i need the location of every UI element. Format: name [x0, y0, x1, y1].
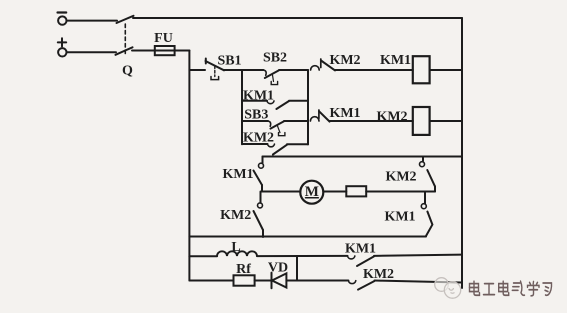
bridge middle rail — [262, 191, 300, 193]
wire SB2 to node B — [279, 69, 308, 71]
pushbutton SB2 — [242, 69, 264, 71]
svg-text:SB1: SB1 — [217, 54, 241, 69]
svg-text:Rf: Rf — [236, 262, 251, 277]
fuse FU — [155, 50, 175, 52]
wire KM2 to right bus (bottom) — [375, 281, 463, 283]
node B column — [307, 70, 309, 144]
wire minus to switch — [67, 20, 117, 22]
wire coil KM2 to right bus — [430, 120, 462, 122]
watermark logo circles — [435, 278, 461, 298]
svg-text:KM1: KM1 — [384, 209, 415, 224]
svg-text:KM2: KM2 — [376, 109, 407, 124]
wire rung1 start — [189, 69, 205, 71]
svg-text:SB2: SB2 — [263, 50, 287, 65]
bridge bottom rail — [189, 236, 426, 238]
inductor L — [189, 255, 217, 257]
电 — [470, 281, 480, 295]
svg-text:KM1: KM1 — [243, 89, 274, 104]
contact KM1 bridge top-left — [262, 157, 264, 164]
svg-text:KM1: KM1 — [380, 53, 411, 68]
coil KM2 — [413, 107, 430, 135]
resistor Rf — [234, 275, 255, 285]
svg-text:KM2: KM2 — [220, 208, 251, 223]
contact KM1 bridge bottom-right — [424, 192, 426, 204]
pushbutton SB1 — [205, 59, 207, 64]
coil KM1 — [413, 56, 430, 83]
node A column — [241, 70, 243, 144]
right bus — [461, 18, 463, 288]
contact KM1 NO (hold-in) — [242, 100, 267, 102]
pushbutton SB3 — [242, 120, 268, 122]
switch Q link (dashed) — [124, 24, 126, 55]
svg-text:KM2: KM2 — [363, 267, 394, 282]
习 — [543, 283, 552, 295]
wire coil KM1 to right bus — [430, 69, 462, 71]
svg-text:KM1: KM1 — [329, 106, 360, 121]
resistor (armature) — [346, 186, 366, 196]
svg-text:Q: Q — [122, 63, 133, 78]
工 — [484, 284, 495, 295]
switch Q pole 1 — [117, 16, 134, 23]
气 — [512, 281, 524, 295]
left bus — [188, 51, 190, 281]
svg-text:M: M — [305, 184, 319, 200]
diode VD — [271, 273, 273, 289]
svg-text:KM1: KM1 — [345, 241, 376, 256]
bridge top rail — [263, 156, 463, 158]
svg-text:KM2: KM2 — [385, 170, 416, 185]
motor M — [300, 181, 323, 204]
svg-text:FU: FU — [154, 31, 173, 46]
svg-text:KM2: KM2 — [329, 53, 360, 68]
wire Rf to VD — [255, 280, 272, 282]
contact KM2 bridge top-right — [422, 157, 424, 162]
watermark text 电工电气学习 (drawn strokes) — [470, 281, 552, 296]
wire Rf row left — [189, 280, 233, 282]
contact KM1 NC (rung2) — [310, 117, 319, 121]
svg-text:KM1: KM1 — [222, 167, 253, 182]
switch Q pole 2 — [116, 47, 133, 55]
svg-text:VD: VD — [268, 260, 288, 275]
wire SB1 to node A — [224, 69, 242, 71]
junction vertical L/Rf — [296, 256, 298, 280]
contact KM2 NO (hold-in rung2) — [242, 143, 268, 145]
terminal plus — [58, 48, 66, 56]
terminal minus — [58, 16, 66, 24]
wire fuse to left bus — [175, 50, 190, 52]
电 — [499, 281, 509, 295]
contact KM2 NC (rung1) — [311, 66, 320, 70]
contact KM2 (bottom row) — [348, 281, 355, 284]
wire VD to junction — [286, 280, 348, 282]
svg-text:L: L — [231, 240, 240, 255]
wire plus to switch — [67, 51, 116, 53]
contact KM1 (bottom row) — [348, 256, 355, 259]
top rail (minus bus) — [133, 17, 462, 19]
contact KM2 bridge bottom-left — [260, 192, 262, 203]
svg-text:KM2: KM2 — [243, 130, 274, 145]
学 — [528, 282, 540, 296]
svg-text:SB3: SB3 — [244, 108, 268, 123]
wire SB3 to node B — [284, 120, 308, 122]
wire switch to fuse — [132, 50, 155, 52]
